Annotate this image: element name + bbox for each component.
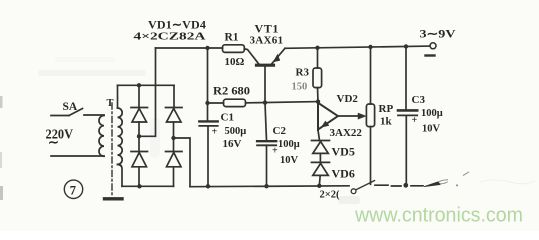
wire VT1 base down <box>264 67 266 103</box>
wire C2 column <box>265 103 267 141</box>
wire left column mid <box>138 122 140 152</box>
wire 220V upper lead <box>51 115 69 117</box>
resistor R2 <box>224 99 246 106</box>
svg-text:+: + <box>412 115 418 126</box>
ground rail small dot <box>456 184 458 186</box>
transistor VT1 emitter arrow <box>273 55 280 62</box>
svg-text:10Ω: 10Ω <box>225 56 245 68</box>
capacitor C2 plates <box>257 140 276 142</box>
transformer core dashed line <box>111 103 113 195</box>
transistor VD2 base bar vertical <box>317 102 319 130</box>
svg-text:7: 7 <box>70 183 76 197</box>
wire right column bottom <box>173 167 175 187</box>
wire VD6 bottom <box>318 175 321 185</box>
svg-text:R3: R3 <box>296 67 310 79</box>
svg-text:C2: C2 <box>273 125 287 137</box>
wire right mid to ground rail <box>174 138 191 186</box>
wire bridge bottom horizontal <box>122 185 174 187</box>
diode VD2b bridge upper-right <box>166 108 183 123</box>
wire R2 column down from rail <box>207 48 209 121</box>
svg-text:500μ: 500μ <box>225 126 247 137</box>
core earth bar <box>105 197 123 200</box>
wire top rail left <box>156 47 223 49</box>
svg-text:+: + <box>212 127 218 138</box>
svg-text:R1: R1 <box>225 32 239 44</box>
node C3 ground <box>403 183 408 188</box>
node bridge bottom left diode <box>137 184 141 188</box>
terminal output 3~9V <box>430 43 436 49</box>
wire R3 bottom <box>317 88 320 102</box>
capacitor C1 plates <box>199 120 217 122</box>
node bridge right mid <box>171 136 175 140</box>
wire VD2 to RP wiper <box>338 115 360 117</box>
node bridge left mid <box>137 134 141 138</box>
circled 7 figure number <box>64 180 82 198</box>
svg-text:3AX22: 3AX22 <box>330 127 363 139</box>
svg-text:10V: 10V <box>280 155 299 166</box>
svg-text:10V: 10V <box>422 124 441 135</box>
wire bridge top horizontal <box>118 84 175 86</box>
diode VD6 <box>312 162 330 175</box>
wire left column bottom <box>138 167 140 187</box>
svg-text:3∼9V: 3∼9V <box>420 29 457 41</box>
node RP top <box>368 45 372 49</box>
diode VD3 bridge lower-left <box>131 152 148 167</box>
svg-text:R2 680: R2 680 <box>213 86 250 98</box>
svg-text:3AX61: 3AX61 <box>250 35 284 47</box>
svg-text:1k: 1k <box>380 116 393 128</box>
transformer T secondary winding <box>118 108 123 164</box>
wire C3 column bottom <box>405 115 407 185</box>
ground rail curl mark <box>438 180 448 184</box>
svg-text:VD1∼VD4: VD1∼VD4 <box>148 18 206 32</box>
wire C3 column top <box>405 47 407 111</box>
node C2 ground <box>264 184 268 188</box>
wire SA to transformer primary top <box>84 114 104 116</box>
resistor R3 <box>313 68 322 88</box>
wire secondary bottom down <box>118 164 123 186</box>
svg-text:2×2(: 2×2( <box>320 190 340 201</box>
node bridge top left <box>137 83 141 87</box>
node top rail R2 branch <box>205 46 209 50</box>
transistor VD2 lower slant <box>318 116 337 129</box>
wire C2 bottom <box>266 145 268 186</box>
node R2/R3/VD2 junction <box>316 99 320 103</box>
svg-text:150: 150 <box>292 82 308 93</box>
ground rail faint tick right <box>464 172 469 175</box>
svg-text:VT1: VT1 <box>255 22 279 36</box>
wire left column top <box>138 85 140 107</box>
transistor VD2 emitter arrowhead <box>322 121 330 127</box>
diode VD1 bridge upper-left <box>131 108 148 123</box>
node R3 top <box>315 46 319 50</box>
capacitor C3 plates <box>398 109 417 112</box>
svg-text:∼: ∼ <box>48 135 59 150</box>
ground rail dark wedge mark <box>424 182 440 187</box>
wire C1 bottom <box>207 126 209 186</box>
wire VD5 to VD6 <box>319 153 321 162</box>
svg-text:SA: SA <box>63 101 78 113</box>
wire secondary top to bridge top <box>117 85 119 108</box>
transistor VT1 base bar <box>257 64 274 67</box>
wire bridge top to right column <box>173 85 175 107</box>
wire DC plus from left mid up to top rail <box>139 48 156 136</box>
switch contact circle on ground rail <box>351 189 356 194</box>
wire VD2 bottom to VD5 <box>318 130 320 141</box>
wire RP column bottom <box>370 127 372 185</box>
svg-text:C1: C1 <box>221 112 234 124</box>
RP wiper arrowhead <box>358 113 366 119</box>
svg-text:RP: RP <box>379 103 394 115</box>
wire RP column top <box>370 47 372 104</box>
diode VD4 bridge lower-right <box>166 152 183 167</box>
svg-text:100μ: 100μ <box>421 108 443 119</box>
node VD6 ground <box>317 184 321 188</box>
wire R2 left stub <box>208 102 224 104</box>
svg-text:VD6: VD6 <box>332 167 355 181</box>
wire 220V lower lead <box>51 155 104 157</box>
resistor R1 <box>223 45 245 53</box>
scan noise left edge marks <box>0 96 3 108</box>
transformer T primary winding <box>99 116 104 157</box>
svg-text:T: T <box>107 98 114 109</box>
transistor VT1 emitter-left slant <box>244 49 258 64</box>
svg-text:C3: C3 <box>412 94 426 106</box>
scan noise smudge near 2x2 <box>338 196 360 204</box>
potentiometer RP body <box>366 104 374 127</box>
svg-text:www.cntronics.com: www.cntronics.com <box>354 204 523 227</box>
svg-text:100μ: 100μ <box>278 139 300 150</box>
scan noise streak top-left <box>38 70 146 76</box>
switch SA blade <box>69 109 83 116</box>
diode VD5 <box>312 141 330 154</box>
node C1 ground <box>206 184 210 188</box>
wire R2 right to R3 bottom node <box>246 102 319 103</box>
node R2 left <box>205 101 209 105</box>
svg-text:4×2CZ82A: 4×2CZ82A <box>134 31 206 43</box>
switch blade on ground rail <box>356 181 374 190</box>
scan noise faint squiggle right <box>480 180 535 184</box>
wire R3 top <box>317 48 319 68</box>
node VT1 base / C2 top <box>263 100 267 104</box>
ground rail solid <box>190 185 349 188</box>
node C3 top <box>404 44 408 48</box>
transistor VD2 upper slant <box>318 103 337 116</box>
svg-text:VD2: VD2 <box>337 93 359 105</box>
wire right column mid <box>173 122 175 152</box>
transistor VT1 collector slant with arrow <box>272 48 286 64</box>
output polarity dash <box>426 54 435 56</box>
svg-text:16V: 16V <box>223 138 242 150</box>
ground rail dashed continuation <box>375 184 423 187</box>
svg-text:VD5: VD5 <box>332 145 355 159</box>
wire top rail right <box>285 46 430 48</box>
